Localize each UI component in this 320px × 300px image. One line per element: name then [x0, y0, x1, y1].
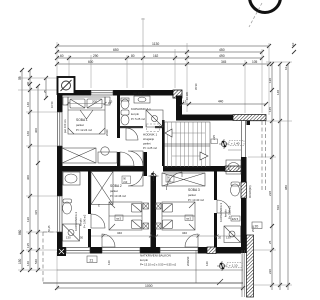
wall bottom with openings [57, 247, 241, 256]
door kup2 from soba2 [91, 214, 105, 228]
wall step vertical [176, 96, 182, 121]
door arc above mid wall (hodnik) [128, 151, 143, 166]
label box 20 right [252, 222, 262, 229]
dim 200 inside soba1 [68, 103, 105, 105]
window left wall soba1 [58, 112, 63, 146]
svg-text:415: 415 [34, 210, 38, 215]
hatched wall extension top right [233, 115, 266, 121]
svg-text:145: 145 [268, 107, 272, 112]
svg-text:450: 450 [219, 48, 225, 52]
wardrobe soba2 vertical [91, 172, 113, 205]
svg-text:20/20: 20/20 [105, 129, 109, 136]
section mark line top center [141, 18, 145, 46]
svg-text:1000: 1000 [145, 284, 153, 288]
wall top-right [176, 115, 233, 121]
terrace right dashed outline [262, 121, 266, 190]
svg-text:860: 860 [18, 229, 22, 235]
balcony support column line [195, 250, 197, 283]
svg-text:60: 60 [60, 54, 64, 58]
top dimension row 4 (600 / 345 105) [55, 62, 271, 66]
level marker hodnik [149, 171, 159, 181]
svg-text:15: 15 [108, 101, 111, 105]
svg-text:290: 290 [93, 54, 99, 58]
svg-text:340: 340 [117, 231, 122, 235]
svg-text:KUPAONICA 1: KUPAONICA 1 [131, 107, 151, 111]
svg-text:140: 140 [205, 261, 209, 266]
balcony windows/doors bottom wall [66, 248, 198, 254]
door arc soba2 below mid wall [128, 171, 143, 186]
tag box soba3 [185, 215, 193, 221]
svg-text:SOBA 3: SOBA 3 [188, 188, 200, 192]
dim line 13/440 above top-right wall [180, 102, 268, 106]
left dimension column 1 [20, 68, 24, 272]
right dimension column 1 [270, 62, 274, 290]
svg-text:EN 5: EN 5 [232, 217, 239, 221]
svg-text:90/135(90): 90/135(90) [248, 185, 252, 198]
svg-text:NATKRIVENI BALKON: NATKRIVENI BALKON [140, 254, 171, 258]
svg-text:75: 75 [97, 204, 101, 207]
svg-text:130: 130 [226, 236, 231, 240]
svg-text:490: 490 [219, 54, 225, 58]
left dimension column 4 short [44, 76, 48, 100]
wall right lower [241, 157, 247, 253]
svg-text:P= 3.90 m2: P= 3.90 m2 [83, 214, 87, 228]
detail circle top right [249, 0, 281, 27]
svg-text:ker.plo: ker.plo [140, 258, 148, 262]
wall left upper with window [57, 90, 63, 171]
tag box landing [211, 139, 218, 144]
svg-text:35 90: 35 90 [194, 83, 198, 90]
svg-text:21: 21 [90, 258, 94, 262]
svg-text:150: 150 [18, 258, 22, 264]
right dimension column 3 [286, 62, 290, 290]
kupaonica1 wc fixtures [121, 98, 129, 125]
wall top-left block [57, 90, 176, 96]
room label SOBA 2 [110, 184, 126, 198]
svg-text:50: 50 [80, 236, 84, 240]
svg-text:105: 105 [252, 60, 258, 64]
balcony doors arcs [102, 234, 198, 247]
svg-text:parket: parket [143, 142, 151, 146]
svg-text:KUPAONICA 3: KUPAONICA 3 [219, 203, 223, 222]
svg-text:130: 130 [66, 236, 71, 240]
interior wall kup2/soba2 [88, 171, 91, 247]
svg-text:210: 210 [167, 180, 172, 183]
svg-text:P= 12.24 m2: P= 12.24 m2 [76, 128, 92, 132]
svg-text:162: 162 [153, 54, 159, 58]
door kup3 [217, 200, 230, 213]
label box 21 balcony [87, 256, 97, 263]
bed soba1 [63, 97, 110, 134]
svg-text:P= 13.10 m2 x 0.50 = 6.55 m2: P= 13.10 m2 x 0.50 = 6.55 m2 [140, 263, 177, 267]
svg-text:140: 140 [107, 260, 111, 265]
label box EN5 kup3 [231, 216, 240, 221]
door arc soba3 below mid wall [166, 172, 182, 190]
svg-text:238: 238 [268, 191, 272, 196]
svg-text:1130: 1130 [152, 42, 159, 46]
svg-text:HODNIK 1: HODNIK 1 [143, 133, 158, 137]
window left wall kupaonica2 [58, 196, 63, 232]
svg-text:KUPAONICA 2: KUPAONICA 2 [74, 212, 78, 231]
attic hatch dashed + label HODNIK 1 [143, 124, 160, 150]
window right wall hatched [241, 182, 247, 198]
svg-text:140: 140 [26, 261, 30, 266]
svg-text:P= 5.25 m2: P= 5.25 m2 [131, 117, 145, 121]
svg-text:P= 4.25 m2: P= 4.25 m2 [143, 146, 157, 150]
svg-text:540: 540 [34, 259, 38, 264]
room label SOBA 1 [76, 118, 92, 132]
svg-text:160: 160 [26, 131, 30, 136]
kupaonica1 shower [146, 110, 163, 127]
svg-text:ker.plo: ker.plo [131, 112, 139, 116]
door tag box soba2 [122, 176, 131, 184]
svg-text:200/230: 200/230 [186, 256, 190, 266]
svg-text:220: 220 [268, 269, 272, 274]
retaining wall bottom right hatched [247, 235, 254, 297]
svg-text:+ 1.10: + 1.10 [229, 264, 238, 268]
left dimension column 2 [28, 68, 32, 272]
interior wall soba1/kup1-hodnik [117, 95, 120, 138]
svg-text:50,25: 50,25 [47, 225, 51, 232]
right dimension column 2 [278, 62, 282, 290]
svg-text:200: 200 [92, 100, 97, 104]
svg-text:600: 600 [88, 60, 94, 64]
svg-text:parket: parket [188, 193, 196, 197]
room label KUPAONICA 2 (vertical) [74, 212, 87, 231]
room label KUPAONICA 3 (vertical) [219, 203, 232, 222]
svg-text:148: 148 [276, 90, 280, 95]
svg-text:na 5: na 5 [186, 217, 192, 221]
top dimension row 3 (60 290 80 162 / 490) [55, 56, 264, 60]
level marker balcony [217, 261, 242, 271]
svg-text:210: 210 [123, 181, 128, 184]
slash on balcony edge [217, 279, 223, 285]
svg-text:na 5: na 5 [116, 217, 122, 221]
svg-text:980: 980 [284, 185, 288, 190]
balcony outline [43, 232, 243, 283]
door tag box soba3 [166, 175, 174, 182]
parapet right of landing [228, 121, 250, 158]
top dimension row 1 (1130) [55, 44, 271, 48]
svg-text:650: 650 [113, 48, 119, 52]
svg-text:20: 20 [150, 231, 154, 235]
svg-text:440: 440 [218, 100, 224, 104]
wall middle full width [57, 152, 225, 176]
level marker landing [219, 139, 244, 149]
svg-text:ker.plo: ker.plo [79, 218, 83, 226]
door kup1 to hodnik [126, 128, 138, 140]
svg-text:P= 13.46 m2: P= 13.46 m2 [110, 194, 126, 198]
wardrobe soba3 horizontal [162, 173, 205, 186]
svg-text:10 50: 10 50 [50, 101, 54, 108]
svg-text:SOBA 2: SOBA 2 [110, 184, 122, 188]
wardrobe soba1 [62, 148, 96, 163]
desk and chair soba1 [98, 147, 117, 163]
stairs arrow up-flight (left) [165, 129, 172, 137]
svg-text:25: 25 [268, 240, 272, 244]
bed soba3 [156, 202, 196, 230]
interior wall hodnik/stairs [162, 120, 165, 166]
interior dim line bottom rooms [91, 235, 241, 238]
svg-text:135: 135 [26, 243, 30, 248]
svg-text:SOBA 1: SOBA 1 [76, 118, 88, 122]
svg-text:parket: parket [110, 189, 118, 193]
top extension lines [57, 42, 269, 115]
svg-text:300: 300 [26, 175, 30, 180]
bed soba2 [109, 202, 149, 230]
wall left lower with window [57, 171, 63, 253]
room label NATKRIVENI BALKON [140, 254, 177, 267]
svg-text:parket: parket [76, 123, 84, 127]
svg-text:10: 10 [284, 66, 288, 70]
svg-text:340: 340 [182, 231, 187, 235]
stairs arrow low-flight (right) [200, 152, 208, 160]
svg-text:120: 120 [26, 217, 30, 222]
svg-text:80: 80 [131, 54, 135, 58]
svg-text:810: 810 [276, 205, 280, 210]
right extension lines [246, 62, 292, 285]
svg-text:10 135: 10 135 [185, 92, 189, 100]
interior wall kup1/hodnik horizontal [120, 126, 143, 128]
kupaonica3 fixtures [224, 160, 241, 243]
interior wall soba2/soba3 [151, 176, 157, 247]
window top wall soba1 [91, 91, 113, 96]
room label KUPAONICA 1 [131, 107, 151, 121]
svg-text:120: 120 [268, 78, 272, 83]
left dimension column 3 [36, 84, 40, 272]
kupaonica1 washbasin counter [134, 96, 150, 103]
balcony dashed roof corner [43, 231, 57, 233]
room label SOBA 3 [188, 188, 204, 202]
svg-text:par. 100 cm: par. 100 cm [63, 119, 67, 133]
svg-text:20: 20 [218, 236, 222, 240]
svg-text:par. 195 cm: par. 195 cm [133, 91, 147, 95]
tag box soba2 [115, 215, 123, 221]
svg-text:140: 140 [26, 102, 30, 107]
top dimension row 2 (650 / 450) [55, 50, 264, 54]
left extension lines [18, 78, 57, 270]
interior wall soba3/kup3 [214, 171, 217, 247]
svg-text:struganje: struganje [143, 137, 155, 141]
svg-text:+ 1.40: + 1.40 [231, 142, 240, 146]
svg-text:300: 300 [34, 128, 38, 133]
stairs [165, 122, 211, 167]
svg-text:345: 345 [221, 60, 227, 64]
kupaonica2 fixtures [63, 172, 81, 241]
svg-text:P= 13.40 m2: P= 13.40 m2 [188, 198, 204, 202]
door soba1 from hodnik [120, 152, 134, 166]
svg-text:20: 20 [255, 224, 259, 228]
chimney [58, 77, 75, 94]
bottom dimension line 1000 [55, 286, 245, 290]
